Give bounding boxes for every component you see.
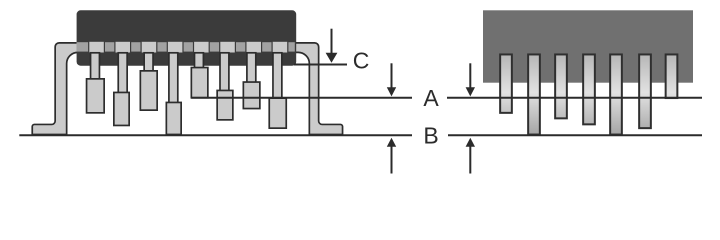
- pin P4 wide: [166, 102, 181, 134]
- band spacer cell 3: [157, 42, 166, 51]
- fig2 pin 3: [555, 54, 567, 118]
- dimension line A right segment: [447, 97, 702, 99]
- arrow C (down): [326, 29, 338, 63]
- gull-wing lead right (fig1): [293, 43, 343, 135]
- pin P2 wide: [114, 92, 129, 125]
- lead tab 5: [194, 42, 209, 53]
- pin P3 neck: [144, 53, 153, 73]
- pin P8 wide: [269, 98, 286, 128]
- pin P1 neck: [91, 53, 100, 80]
- lead tab 8: [273, 42, 288, 53]
- band spacer cell 7: [262, 42, 271, 51]
- pin P7 neck: [247, 53, 256, 84]
- pin P2 neck: [118, 53, 127, 94]
- dimension line B right segment: [448, 134, 702, 136]
- pin P6 neck: [220, 53, 229, 92]
- lead tab 6: [220, 42, 235, 53]
- lead tab 3: [142, 42, 157, 53]
- fig2 pin 4: [583, 54, 595, 124]
- gull-wing lead left (fig1): [32, 43, 79, 135]
- dimension line C: [294, 64, 347, 66]
- arrow A fig2 (down): [466, 63, 475, 96]
- pin P5 neck: [195, 53, 204, 68]
- band spacer cell 0: [77, 42, 89, 51]
- lead tab 7: [247, 42, 262, 53]
- svg-text:A: A: [423, 85, 439, 111]
- dimension line B left segment: [19, 134, 412, 136]
- band spacer cell 8: [288, 42, 294, 51]
- IC body (fig1, dark): [77, 10, 297, 65]
- pin P7 wide: [243, 82, 260, 109]
- arrow B fig1 (up): [387, 138, 396, 174]
- pin P6 wide: [217, 90, 233, 119]
- svg-text:C: C: [353, 48, 370, 74]
- pin P8 neck: [273, 53, 282, 99]
- band spacer cell 2: [131, 42, 140, 51]
- arrow A fig1 (down): [387, 63, 396, 96]
- fig2 pin 7: [666, 54, 678, 98]
- arrow B fig2 (up): [466, 138, 475, 174]
- fig2 pin 5: [610, 54, 622, 134]
- fig2 pin 6: [639, 54, 651, 128]
- svg-text:B: B: [423, 122, 438, 148]
- pin P1 wide: [87, 79, 105, 113]
- band spacer cell 4: [184, 42, 193, 51]
- pin P5 wide: [191, 68, 208, 98]
- lead tab 2: [116, 42, 131, 53]
- band spacer cell 1: [105, 42, 114, 51]
- pin P4 neck: [169, 53, 178, 104]
- lead tab 4: [168, 42, 183, 53]
- band spacer cell 6: [236, 42, 245, 51]
- fig2 pin 1: [500, 54, 512, 112]
- fig2 pin 2: [528, 54, 540, 134]
- IC body (fig2, gray): [483, 10, 693, 82]
- band spacer cell 5: [210, 42, 219, 51]
- pin P3 wide: [140, 71, 157, 110]
- lead tab 1: [89, 42, 104, 53]
- dimension line A left segment: [191, 97, 412, 99]
